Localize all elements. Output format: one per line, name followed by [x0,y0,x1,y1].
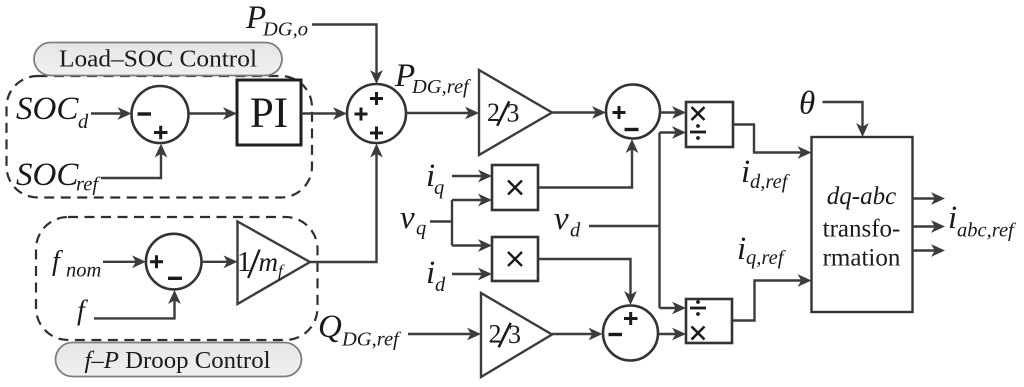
svg-text:rmation: rmation [823,245,901,272]
label SOC_d [16,91,89,133]
wire f_nom to summer S5 [103,261,139,263]
svg-text:q,ref: q,ref [746,247,787,269]
label f [77,296,88,327]
svg-text:v: v [400,200,415,236]
wire SOC_ref to summer S1 bottom [101,151,161,179]
svg-text:d: d [78,111,89,133]
svg-text:f: f [52,246,63,277]
svg-text:nom: nom [66,260,101,282]
summer S4 [603,306,658,361]
block PI [237,80,301,145]
svg-text:i: i [948,200,957,236]
pill label Load-SOC Control [34,43,282,76]
svg-text:f–P Droop Control: f–P Droop Control [85,347,271,374]
label i_d [426,255,446,296]
svg-text:v: v [554,201,569,237]
svg-text:i: i [741,154,750,190]
svg-text:DG,ref: DG,ref [411,76,472,98]
wire summer S3 to divider D1 [660,111,679,113]
svg-text:ref: ref [76,174,101,196]
pill label f-P Droop Control [56,343,302,377]
gain 2/3 top [479,70,552,155]
svg-text:q: q [416,218,426,240]
wire SOC_d to summer S1 [91,112,125,114]
wire Q_DG,ref to gain 2/3 bottom [408,333,474,335]
svg-text:SOC: SOC [16,91,79,127]
summer S5 [146,234,202,290]
svg-text:3: 3 [508,320,521,349]
label theta [799,86,815,122]
wire gain to summer S4 [552,333,596,335]
label Q_DG,ref [318,309,402,351]
label i_abc,ref [948,200,1017,242]
wire theta to dq block top [823,102,863,130]
svg-text:d: d [435,274,446,296]
wire D2 out to dq block, label i_q,ref [732,281,805,321]
label P_DG,o [245,0,308,41]
output wires i_abc,ref [913,199,939,251]
summer S2 [347,84,406,143]
svg-text:d: d [570,220,581,242]
label f_nom [52,246,101,282]
wire PI to summer S2 [301,112,341,114]
svg-text:DG,o: DG,o [262,19,308,41]
wire f to summer S5 bottom [94,297,175,318]
svg-text:f: f [77,296,88,327]
label v_d [554,201,581,242]
summer S1 [132,86,189,143]
svg-text:abc,ref: abc,ref [957,220,1017,242]
wire summer S5 to gain 1/mf [202,261,231,263]
block dq-abc transformation [812,137,913,312]
wire summer S4 to divider D2 [658,333,679,335]
label P_DG,ref [394,58,472,98]
wire v_q branch to M1 and M2 [430,200,485,246]
dashed box f-P Droop Control [36,217,318,340]
wire i_d to multiplier M2 [452,273,485,275]
dashed box Load-SOC Control [7,76,313,198]
multiplier M2 [492,237,538,281]
svg-text:i: i [737,231,746,267]
svg-text:DG,ref: DG,ref [341,329,402,351]
wire M1 out to summer S3 bottom [538,146,632,188]
svg-text:transfo-: transfo- [823,216,901,243]
wire i_q to multiplier M1 [452,175,485,177]
svg-text:Load–SOC Control: Load–SOC Control [59,46,257,73]
block D1 multiply-divide [686,102,733,147]
wire summer S1 to PI [189,112,231,114]
svg-text:Q: Q [318,309,342,345]
wire summer S2 to gain 2/3 top [406,112,472,114]
gain 1/mf [237,222,310,305]
gain 2/3 bottom [481,293,552,377]
label i_q [426,158,444,199]
svg-text:i: i [426,255,435,291]
wire v_d to dividers [589,133,679,309]
svg-text:m: m [259,247,279,277]
svg-text:dq-abc: dq-abc [827,183,896,210]
wire gain 1/mf to summer S2 bottom [310,151,377,263]
label v_q [400,200,426,240]
block D2 divide-multiply [686,299,732,343]
wire D1 out to dq block, label i_d,ref [733,125,805,153]
summer S3 [606,85,660,139]
svg-text:PI: PI [250,90,288,137]
svg-text:d,ref: d,ref [750,171,791,193]
wire gain to summer S3 [552,111,599,113]
multiplier M1 [492,165,538,210]
svg-text:q: q [434,177,444,199]
wire M2 out to summer S4 top [538,259,631,298]
svg-text:θ: θ [799,86,815,122]
wire P_DG,o to summer S2 top [312,25,377,78]
label SOC_ref [16,157,101,196]
svg-text:SOC: SOC [16,157,79,193]
svg-text:3: 3 [507,98,520,127]
